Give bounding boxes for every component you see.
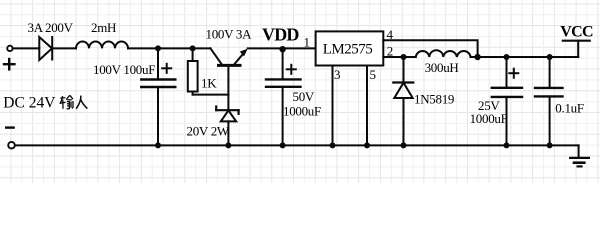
wire U1 pin3 to ground rail	[332, 66, 334, 146]
inductor L1 2mH	[76, 42, 128, 49]
svg-text:LM2575: LM2575	[323, 42, 373, 58]
wire L2 to VCC rail	[471, 56, 579, 58]
resistor R1 1K	[188, 48, 198, 94]
svg-text:1K: 1K	[201, 76, 217, 91]
junction D2 bottom	[401, 142, 407, 148]
junction L2 out feedback	[474, 54, 480, 60]
transistor Q1 100V 3A	[211, 48, 248, 110]
minus sign at input terminal	[6, 126, 13, 128]
junction pin3 bottom	[330, 142, 336, 148]
svg-text:2mH: 2mH	[91, 20, 116, 35]
junction C4 bottom	[547, 142, 553, 148]
capacitor C2 50V 1000uF	[266, 48, 301, 145]
junction R1 top	[190, 45, 196, 51]
svg-text:1000uF: 1000uF	[283, 104, 321, 119]
input label chinese ru (of shuru)	[76, 96, 87, 109]
input terminal +	[7, 46, 12, 51]
svg-text:0.1uF: 0.1uF	[555, 101, 584, 116]
svg-text:50V: 50V	[293, 89, 315, 104]
bottom ground rail wire	[16, 144, 579, 146]
wire R1 bottom to Q1 base	[193, 94, 229, 96]
svg-text:2: 2	[387, 44, 393, 59]
plus sign of C3	[509, 69, 518, 78]
op-amp style IC box U1 LM2575	[316, 31, 384, 65]
input label chinese shu (of shuru)	[60, 95, 73, 109]
plus sign of C2	[287, 65, 296, 74]
junction C2 bottom	[280, 142, 286, 148]
svg-text:100V 100uF: 100V 100uF	[93, 62, 155, 77]
capacitor C3 25V 1000uF	[492, 57, 522, 145]
diode D1 3A 200V	[39, 37, 52, 60]
junction C4 top	[547, 54, 553, 60]
wire U1 pin2 output	[383, 56, 415, 58]
wire U1 pin5 to ground rail	[366, 66, 368, 146]
svg-text:VCC: VCC	[560, 23, 593, 40]
svg-text:1000uF: 1000uF	[470, 111, 508, 126]
junction C1 top	[155, 45, 161, 51]
plus sign of C1	[162, 64, 171, 73]
svg-text:1N5819: 1N5819	[414, 92, 454, 107]
plus sign at input terminal	[4, 59, 14, 69]
junction C3 top	[504, 54, 510, 60]
junction C1 bottom	[155, 142, 161, 148]
wire Q1 emitter to node VDD to U1 pin1	[248, 47, 316, 49]
junction D3 bottom	[225, 142, 231, 148]
svg-text:VDD: VDD	[262, 24, 299, 44]
VCC power symbol	[563, 41, 590, 57]
svg-text:3A 200V: 3A 200V	[28, 20, 74, 35]
node VDD junction	[279, 46, 285, 52]
svg-text:4: 4	[387, 27, 394, 42]
svg-text:100V 3A: 100V 3A	[206, 26, 253, 41]
svg-text:5: 5	[370, 67, 376, 82]
diode D2 1N5819	[393, 57, 413, 145]
junction pin5 bottom	[364, 142, 370, 148]
wire terminal to diode D1	[14, 47, 40, 49]
wire D1 to L1	[52, 47, 76, 49]
input terminal -	[8, 142, 15, 149]
svg-text:DC 24V: DC 24V	[3, 95, 56, 112]
capacitor C1 100V 100uF	[141, 48, 175, 145]
svg-text:1: 1	[304, 35, 310, 50]
inductor L2 300uH	[416, 50, 471, 57]
wire L1 to transistor collector	[128, 47, 211, 49]
svg-text:300uH: 300uH	[425, 60, 459, 75]
svg-text:20V 2W: 20V 2W	[187, 124, 230, 139]
capacitor C4 0.1uF	[535, 57, 563, 145]
wire U1 pin4 feedback	[383, 40, 477, 57]
zener diode D3 20V 2W	[216, 107, 238, 146]
ground	[570, 145, 589, 166]
junction C3 bottom	[504, 142, 510, 148]
svg-text:3: 3	[334, 67, 340, 82]
junction D2 top	[401, 54, 407, 60]
